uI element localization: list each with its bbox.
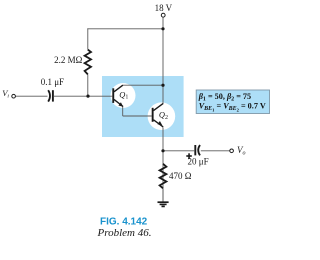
svg-text:Vi: Vi bbox=[2, 88, 9, 99]
svg-text:Vo: Vo bbox=[237, 145, 246, 157]
svg-text:2.2 MΩ: 2.2 MΩ bbox=[54, 55, 83, 65]
svg-text:0.1 μF: 0.1 μF bbox=[41, 77, 64, 87]
svg-text:470 Ω: 470 Ω bbox=[169, 171, 192, 181]
svg-text:Problem 46.: Problem 46. bbox=[97, 227, 152, 239]
svg-text:18 V: 18 V bbox=[155, 3, 173, 13]
svg-text:20 μF: 20 μF bbox=[188, 157, 209, 167]
